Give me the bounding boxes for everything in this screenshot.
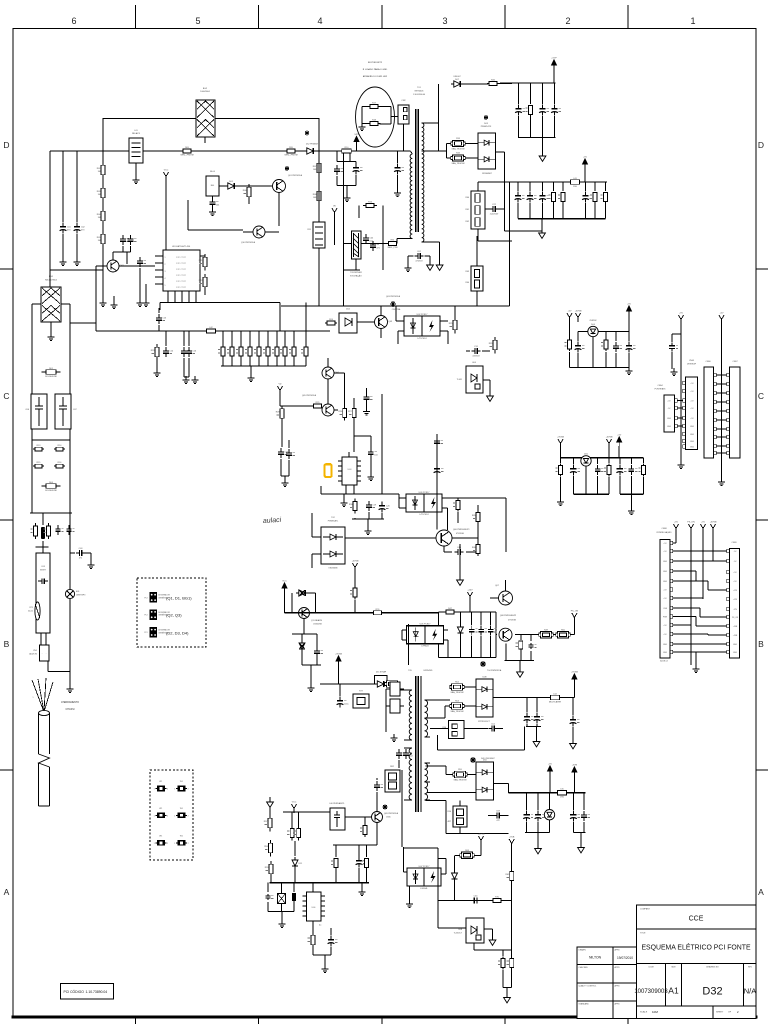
ground arrow T1b bbox=[436, 260, 443, 270]
svg-text:6V8/5W: 6V8/5W bbox=[590, 320, 597, 322]
svg-text:SOLDE/LINK: SOLDE/LINK bbox=[45, 490, 57, 492]
diode D08 pack bbox=[476, 677, 493, 724]
svg-text:CN06: CN06 bbox=[705, 361, 711, 363]
svg-text:VD: VD bbox=[278, 384, 281, 386]
wire C48 join bbox=[525, 727, 541, 750]
capacitor C56 bbox=[581, 792, 590, 832]
resistor R71 bbox=[498, 950, 505, 988]
connector CN1 bbox=[29, 645, 49, 661]
wire zener drop bbox=[592, 337, 594, 368]
inductor L02 bbox=[204, 327, 218, 333]
svg-text:L/0304L: L/0304L bbox=[420, 888, 428, 890]
svg-text:GND: GND bbox=[690, 426, 695, 428]
resistor row R268 bbox=[263, 331, 270, 366]
svg-text:6: 6 bbox=[71, 16, 76, 26]
transistor Q05 bbox=[302, 379, 334, 416]
connector CN09 bbox=[727, 542, 740, 658]
transformer T1 secondary bbox=[422, 84, 447, 262]
capacitor C03 bbox=[70, 548, 91, 562]
resistor pack R11 bbox=[307, 222, 325, 248]
wire thermistor out bbox=[41, 633, 46, 645]
wire dd2 out bbox=[345, 537, 436, 539]
svg-text:+5V: +5V bbox=[720, 313, 724, 315]
svg-text:CN04: CN04 bbox=[657, 385, 663, 387]
capacitor C20 bbox=[379, 502, 391, 520]
diode D11 bbox=[292, 841, 303, 883]
vcc +5V cl2 bbox=[583, 157, 588, 183]
wire rail left bbox=[31, 304, 33, 513]
resistor R33 bbox=[451, 138, 465, 150]
vcc clC bbox=[617, 435, 622, 458]
svg-text:NILTON: NILTON bbox=[589, 956, 602, 960]
resistor R56 bbox=[360, 817, 367, 837]
wire br bottom2 bbox=[573, 833, 585, 845]
capacitor C34 bbox=[626, 332, 636, 368]
resistor row R294 bbox=[289, 331, 296, 366]
svg-text:1: 1 bbox=[174, 843, 175, 845]
svg-text:+5V: +5V bbox=[583, 157, 587, 159]
diode D13 bbox=[285, 590, 316, 613]
svg-text:+5VB: +5VB bbox=[572, 765, 578, 767]
svg-text:+5VSB: +5VSB bbox=[478, 834, 485, 836]
svg-text:L/TLP624: L/TLP624 bbox=[419, 514, 429, 516]
capacitor C47 bbox=[403, 749, 413, 759]
capacitor C61 bbox=[292, 883, 296, 912]
wire dd4 out bbox=[494, 784, 509, 793]
power cord plug bbox=[39, 710, 50, 806]
wire y306 feedback bbox=[281, 305, 510, 307]
vcc 5VSB stby bbox=[335, 654, 342, 685]
capacitor C74 film bbox=[41, 513, 45, 547]
resistor R57 bbox=[264, 807, 272, 831]
wire ellipse left bbox=[362, 107, 369, 124]
capacitor C41 bbox=[469, 612, 478, 658]
resistor R77 block bbox=[353, 691, 369, 709]
transistor Q06 bbox=[436, 529, 470, 546]
capacitor C09 bbox=[38, 578, 48, 584]
svg-text:C: C bbox=[758, 391, 764, 401]
wire ladder rungs bbox=[716, 375, 726, 453]
wire U02 right bbox=[440, 306, 455, 344]
svg-text:U01 KA7500/TL494: U01 KA7500/TL494 bbox=[172, 245, 191, 248]
ground C15 bbox=[183, 376, 190, 384]
capacitor C51 bbox=[488, 710, 503, 731]
resistor row R306 bbox=[301, 331, 308, 366]
wire y323 branch bbox=[70, 323, 96, 331]
svg-text:1M: 1M bbox=[98, 240, 101, 242]
svg-text:A01/B.04: A01/B.04 bbox=[660, 660, 667, 663]
svg-text:C: C bbox=[3, 391, 9, 401]
svg-text:GND: GND bbox=[690, 434, 695, 436]
wire 12v bottom bbox=[439, 657, 497, 659]
ground R67 bbox=[322, 965, 329, 973]
wire y519 bbox=[352, 519, 384, 528]
op-amp U06 bbox=[303, 883, 326, 927]
wire D03 in bbox=[447, 144, 479, 159]
capacitor C63 bbox=[328, 928, 338, 955]
power cord wires bbox=[32, 678, 53, 712]
capacitor C01 bbox=[60, 151, 72, 258]
resistor R32 bbox=[487, 80, 512, 86]
svg-text:COMPANY: COMPANY bbox=[640, 908, 651, 911]
svg-text:PCI: PCI bbox=[144, 597, 148, 599]
resistor R80 bbox=[30, 523, 37, 539]
svg-text:A: A bbox=[758, 887, 764, 897]
resistor R30 bbox=[349, 499, 357, 520]
wire U09 right bbox=[442, 498, 506, 552]
svg-text:A: A bbox=[4, 887, 10, 897]
PCI code box bbox=[61, 984, 114, 1000]
bridge rectifier BG2 bbox=[196, 88, 215, 143]
resistor R52 bbox=[450, 682, 464, 694]
wire x384 drop bbox=[381, 394, 383, 494]
resistor R40 bbox=[564, 332, 571, 368]
resistor R06 bbox=[243, 184, 251, 204]
resistor row R232 bbox=[227, 331, 234, 366]
diode D15 bbox=[374, 671, 387, 688]
capacitor C31 bbox=[466, 346, 490, 357]
capacitor C52 bbox=[523, 793, 533, 833]
svg-text:DRAWN: DRAWN bbox=[579, 949, 587, 952]
connector CN05 bbox=[683, 360, 698, 450]
svg-text:2: 2 bbox=[167, 815, 168, 817]
wire Q02 top bbox=[113, 252, 127, 264]
svg-text:1: 1 bbox=[154, 815, 155, 817]
svg-text:19/07/2010: 19/07/2010 bbox=[617, 956, 633, 960]
ground lc bbox=[279, 920, 286, 928]
ground arrow br1 bbox=[535, 844, 542, 854]
resistor R69 bbox=[506, 872, 514, 959]
title block company box bbox=[637, 905, 757, 929]
ground arrow lc bbox=[267, 797, 274, 807]
transformer T2 core bbox=[416, 676, 421, 812]
capacitor C35 bbox=[570, 458, 580, 494]
power flag AT1 bbox=[673, 522, 678, 534]
svg-text:+5V: +5V bbox=[568, 311, 572, 313]
wire AC bus 2 bbox=[50, 124, 412, 154]
resistor R70 bbox=[491, 897, 503, 903]
svg-text:PCI CÓDIGO: PCI CÓDIGO bbox=[64, 989, 85, 994]
resistor R03 bbox=[97, 185, 105, 202]
capacitor C02 bbox=[74, 151, 86, 258]
wire br bus bbox=[509, 792, 586, 794]
wire y494 bus bbox=[321, 486, 399, 494]
wire C17 join bbox=[281, 476, 289, 480]
svg-text:NIGHT: NIGHT bbox=[40, 570, 47, 572]
power flag VD2 bbox=[277, 384, 282, 407]
vcc SP5 bbox=[354, 134, 359, 151]
ground chassis cap bbox=[88, 561, 95, 569]
svg-text:4: 4 bbox=[317, 16, 322, 26]
wire x343 drop bbox=[343, 151, 345, 306]
svg-text:10M: 10M bbox=[652, 1010, 658, 1014]
capacitor C21 bbox=[408, 251, 430, 265]
svg-text:1: 1 bbox=[690, 16, 695, 26]
svg-text:+5VP: +5VP bbox=[551, 58, 557, 60]
zener D05 bbox=[581, 453, 591, 466]
svg-text:N/A: N/A bbox=[744, 987, 757, 996]
resistor pack R51 bbox=[386, 682, 404, 732]
label chassis bbox=[61, 701, 79, 711]
svg-text:SCALE: SCALE bbox=[640, 1011, 648, 1014]
resistor R58 bbox=[264, 840, 272, 857]
resistor R49 bbox=[539, 629, 553, 638]
wire cl1 top bbox=[500, 82, 556, 84]
capacitor C11 bbox=[120, 235, 129, 252]
wire flag VCC1 bbox=[160, 181, 166, 256]
title block title box bbox=[637, 929, 757, 964]
svg-text:SBA_7R06YM: SBA_7R06YM bbox=[454, 779, 467, 782]
resistor R79 bbox=[350, 586, 357, 613]
svg-text:MTR4606: MTR4606 bbox=[415, 90, 425, 92]
svg-text:PWR: PWR bbox=[663, 617, 668, 619]
svg-text:1.10.73890.04: 1.10.73890.04 bbox=[86, 990, 108, 994]
resistor R35 bbox=[525, 83, 532, 138]
svg-text:+5VB: +5VB bbox=[733, 635, 738, 637]
svg-text:SBA_7R06YM: SBA_7R06YM bbox=[452, 162, 465, 165]
transistor Q01 bbox=[255, 174, 303, 226]
capacitor C29 bbox=[582, 182, 592, 219]
svg-text:+5VSB: +5VSB bbox=[571, 672, 578, 674]
resistor R13 bbox=[33, 445, 44, 451]
capacitor C16 bbox=[186, 331, 197, 377]
ground U01 pin bbox=[143, 284, 150, 307]
resistor pack R63 bbox=[466, 236, 483, 306]
resistor R84 bbox=[361, 845, 368, 883]
svg-text:5: 5 bbox=[165, 285, 166, 287]
svg-text:+5VB: +5VB bbox=[509, 837, 515, 839]
wire Q08 down bbox=[505, 644, 534, 661]
wire drive bus bbox=[285, 612, 439, 614]
thermistor RT1 bbox=[28, 602, 40, 620]
ground R23 bbox=[154, 369, 161, 377]
ground clA bbox=[626, 367, 633, 375]
transistor Q03 bbox=[357, 306, 393, 338]
resistor row R285 bbox=[280, 331, 287, 366]
zener D06 bbox=[457, 612, 463, 658]
svg-text:CODE: CODE bbox=[648, 967, 654, 969]
inductor L04 bbox=[549, 693, 575, 703]
capacitor C67 bbox=[374, 778, 383, 812]
svg-text:PS_ON: PS_ON bbox=[732, 617, 739, 619]
svg-text:4: 4 bbox=[165, 278, 166, 280]
ground y883 bbox=[359, 883, 366, 896]
power flag drive bbox=[352, 561, 359, 587]
wire U07 right bbox=[404, 848, 447, 901]
connector CN07 bbox=[727, 361, 740, 458]
zener D14 bbox=[292, 619, 317, 666]
resistor R59 bbox=[265, 861, 273, 883]
connector CN2 degauss bbox=[398, 100, 409, 124]
svg-text:R60: R60 bbox=[466, 197, 469, 199]
svg-text:D15 STRAP: D15 STRAP bbox=[376, 671, 387, 674]
wire clC bus bbox=[561, 457, 644, 459]
capacitor C42 bbox=[478, 612, 487, 658]
capacitor C43 bbox=[488, 612, 497, 658]
svg-text:C945/2SB: C945/2SB bbox=[313, 623, 322, 625]
ground x103 bbox=[100, 299, 107, 307]
wire x320 bbox=[318, 118, 320, 306]
svg-text:TL431/CT: TL431/CT bbox=[454, 932, 463, 934]
svg-text:2: 2 bbox=[167, 843, 168, 845]
svg-text:B: B bbox=[758, 639, 764, 649]
svg-text:U02 PC817: U02 PC817 bbox=[417, 314, 429, 316]
wire D07 east bbox=[463, 83, 488, 85]
wire 12V out bbox=[493, 697, 549, 699]
wire dd3 in bbox=[450, 687, 476, 706]
power flag 12v bbox=[467, 590, 473, 612]
capacitor C26 bbox=[515, 182, 525, 219]
svg-text:(Q1, D1, BG1): (Q1, D1, BG1) bbox=[166, 596, 192, 601]
wire AC bus top bbox=[103, 118, 319, 120]
power flag clA2 bbox=[575, 311, 582, 323]
capacitor C64 bbox=[471, 896, 480, 904]
wire rail right bbox=[69, 304, 71, 513]
wire y845 bbox=[333, 844, 377, 846]
capacitor C24 bbox=[539, 83, 549, 138]
wire T2 sec1a bbox=[430, 700, 450, 718]
svg-text:R61: R61 bbox=[466, 209, 469, 211]
svg-text:aulaci: aulaci bbox=[263, 517, 282, 525]
wire stby bus bbox=[320, 684, 404, 690]
power flag T2low bbox=[478, 834, 485, 856]
op-amp U08 TL431 bbox=[454, 918, 484, 943]
ground arrow cl1 bbox=[539, 138, 546, 162]
capacitor C17 bbox=[278, 448, 289, 476]
svg-text:SRKL_PR6YM: SRKL_PR6YM bbox=[180, 155, 194, 157]
resistor row R259 bbox=[254, 331, 261, 366]
svg-text:1: 1 bbox=[165, 257, 166, 259]
svg-text:(D2, D3, D4): (D2, D3, D4) bbox=[166, 630, 189, 635]
svg-text:CENT/SP3: CENT/SP3 bbox=[76, 594, 85, 596]
inductor L05 bbox=[556, 789, 569, 799]
resistor R50 bbox=[556, 629, 570, 638]
wire Q07 stub bbox=[490, 580, 506, 598]
wire T2 return bbox=[438, 735, 525, 750]
svg-text:L06 PERDA/MTL: L06 PERDA/MTL bbox=[329, 802, 345, 805]
star T05b bbox=[470, 757, 496, 763]
resistor row R241 bbox=[236, 331, 243, 366]
capacitor C59 bbox=[266, 883, 274, 912]
svg-text:SOLDE/LINK: SOLDE/LINK bbox=[45, 376, 57, 378]
ground T2 left bbox=[391, 732, 398, 742]
svg-text:TITLE: TITLE bbox=[640, 933, 646, 935]
svg-text:GND: GND bbox=[663, 581, 668, 583]
resistor pack R82 bbox=[385, 766, 400, 792]
wire clC bottom1 bbox=[573, 493, 609, 495]
svg-text:U09 PC817: U09 PC817 bbox=[419, 492, 431, 494]
svg-text:+24V: +24V bbox=[467, 590, 473, 592]
wire flag VD1 bbox=[334, 217, 336, 245]
capacitor C66 bbox=[337, 684, 349, 708]
capacitor C46 bbox=[396, 748, 407, 768]
svg-text:471/1kV: 471/1kV bbox=[415, 260, 423, 262]
wire 12v bus bbox=[439, 612, 497, 658]
svg-text:GND: GND bbox=[690, 441, 695, 443]
title block signature table bbox=[577, 947, 637, 1019]
svg-text:GND: GND bbox=[663, 571, 668, 573]
vcc br1 bbox=[548, 764, 553, 793]
svg-text:PS_ON: PS_ON bbox=[687, 522, 695, 524]
vcc clA bbox=[627, 304, 632, 332]
resistor pack R60 bbox=[466, 182, 512, 241]
resistor R47 bbox=[444, 608, 456, 614]
svg-text:GND: GND bbox=[667, 418, 672, 420]
zone letters sides bbox=[3, 140, 764, 897]
wire R54 bbox=[430, 728, 488, 730]
wire bridge top link bbox=[50, 269, 103, 271]
svg-text:CHASSI: CHASSI bbox=[66, 708, 75, 711]
driver transformer T03 bbox=[344, 231, 363, 277]
svg-text:+5V: +5V bbox=[617, 435, 621, 437]
vcc br2 bbox=[572, 765, 578, 793]
svg-text:1: 1 bbox=[174, 789, 175, 791]
svg-text:2: 2 bbox=[188, 843, 189, 845]
resistor R83 bbox=[331, 845, 338, 883]
capacitor C70 bbox=[354, 436, 378, 481]
resistor R75 bbox=[453, 499, 460, 524]
transistor Q11 bbox=[299, 608, 323, 626]
wire cl2 bottom bbox=[518, 218, 606, 220]
resistor R78 bbox=[385, 681, 399, 687]
svg-text:CN08: CN08 bbox=[661, 528, 667, 530]
ground y519 bbox=[365, 527, 372, 535]
resistor R22 bbox=[199, 274, 207, 291]
vcc 5VSB mid bbox=[571, 672, 578, 698]
transformer T2 primary bbox=[404, 670, 433, 800]
ground arrow C48 bbox=[533, 737, 540, 747]
capacitor C13 bbox=[156, 308, 167, 331]
resistor R46 bbox=[472, 524, 480, 556]
wire AT ladder rungs bbox=[673, 551, 727, 652]
svg-text:EXCITAÇÃO: EXCITAÇÃO bbox=[350, 274, 362, 277]
capacitor C06 xcap bbox=[25, 394, 47, 429]
ground C1x bbox=[111, 296, 118, 309]
wire row bottom bbox=[221, 365, 306, 367]
svg-text:VCC: VCC bbox=[164, 170, 169, 172]
svg-text:Q05 PNP/4R#A: Q05 PNP/4R#A bbox=[302, 394, 317, 397]
ground L01 bbox=[133, 176, 140, 184]
note ellipse degauss bbox=[356, 62, 395, 147]
ground C39 bbox=[671, 368, 678, 376]
wire BG1 sides bbox=[32, 303, 70, 305]
ground CNb bbox=[718, 478, 725, 486]
svg-text:5D-11: 5D-11 bbox=[28, 610, 33, 612]
connector CN04 bbox=[655, 385, 678, 432]
wire x354 rise bbox=[353, 420, 355, 452]
ground C04 bbox=[209, 208, 216, 216]
legend dissipador box bbox=[137, 578, 206, 647]
svg-text:GND: GND bbox=[667, 426, 672, 428]
inductor L03 bbox=[568, 178, 582, 188]
capacitor C22 bbox=[485, 204, 504, 215]
svg-text:GND: GND bbox=[663, 644, 668, 646]
capacitor C50 bbox=[570, 698, 580, 741]
svg-text:PCI: PCI bbox=[144, 615, 148, 617]
op-amp U03 supervisor bbox=[338, 452, 361, 494]
resistor R66 bbox=[294, 812, 301, 841]
capacitor C15 bbox=[181, 331, 190, 377]
svg-text:+5V: +5V bbox=[701, 522, 705, 524]
spark gap E1 bbox=[65, 589, 85, 598]
wire y406 bus bbox=[280, 405, 313, 407]
ground y494 bbox=[341, 494, 348, 507]
wire U05 left bbox=[402, 624, 409, 665]
resistor R18 bbox=[368, 120, 381, 126]
svg-text:CHECKED: CHECKED bbox=[579, 967, 589, 969]
resistor R08 bbox=[313, 188, 321, 205]
resistor R74 bbox=[359, 202, 383, 271]
